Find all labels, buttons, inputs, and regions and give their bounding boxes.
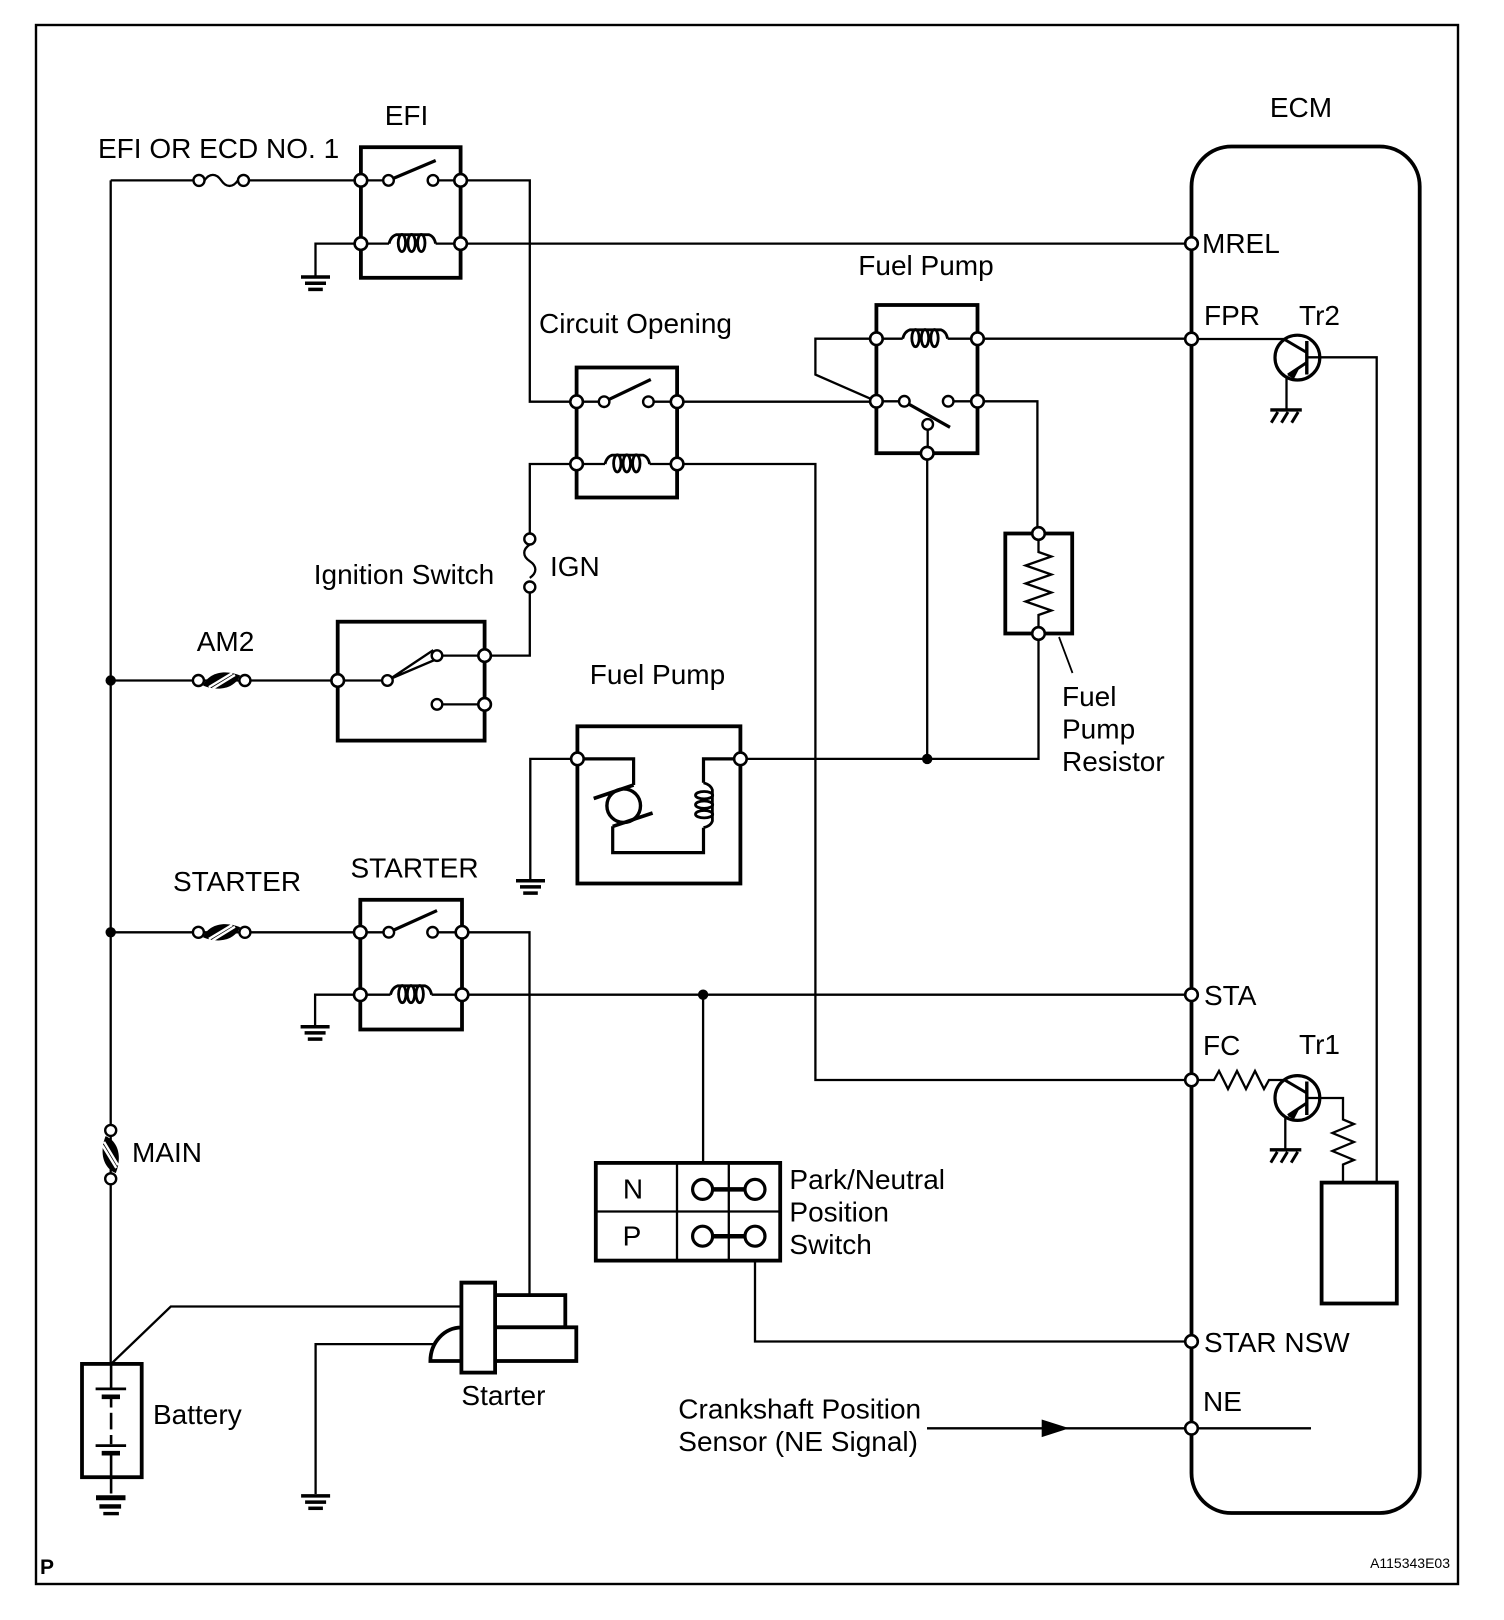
fuel pump motor brush bars — [594, 785, 634, 799]
svg-text:STAR NSW: STAR NSW — [1204, 1327, 1350, 1358]
wire: circuit opening coil right down to FC line and to ECM FC pin — [677, 464, 1191, 1080]
ignition switch IG2 contact + wire — [442, 654, 485, 656]
ignition switch arm (wedge) — [390, 651, 437, 679]
junction node at STARTER tap — [106, 927, 116, 937]
svg-text:Battery: Battery — [153, 1399, 242, 1430]
fusible link MAIN — [100, 1135, 121, 1175]
wire: starter motor to ground — [316, 1344, 434, 1494]
wire: Tr2 collector to load box — [1307, 357, 1377, 1182]
ground (fuel pump unit) — [516, 881, 545, 893]
svg-text:EFI OR ECD NO. 1: EFI OR ECD NO. 1 — [98, 133, 339, 164]
ground (EFI relay coil) — [301, 277, 330, 289]
relay STARTER coil — [391, 986, 432, 1003]
fuel pump resistor terminals — [1032, 527, 1045, 540]
transistor Tr2 — [1275, 335, 1320, 408]
relay Circuit Opening terminals — [570, 395, 583, 408]
fuel pump motor internal wiring — [577, 759, 633, 785]
chassis ground (Tr2 emitter) — [1270, 410, 1302, 423]
Fuel Pump unit box — [577, 726, 740, 883]
wire: STA junction down to park/neutral switch — [702, 995, 704, 1163]
relay EFI box — [361, 147, 461, 278]
wire: circuit opening switch to fuel pump relay switch — [677, 401, 876, 403]
fuel pump motor armature circle — [607, 789, 641, 823]
battery internal plates — [96, 1364, 127, 1494]
wire: circuit opening relay coil left to IGN fuse — [530, 464, 577, 539]
wire: EFI relay coil to ground — [316, 244, 361, 276]
switch Park/Neutral Position box — [596, 1163, 780, 1261]
svg-text:Position: Position — [789, 1197, 889, 1228]
wire: MREL line from EFI relay coil to ECM — [461, 242, 1192, 244]
park/neutral inner dividers — [596, 1163, 780, 1261]
svg-text:ECM: ECM — [1270, 92, 1332, 123]
svg-text:Crankshaft Position: Crankshaft Position — [678, 1394, 921, 1425]
ECM pin STAR NSW — [1185, 1335, 1198, 1348]
svg-text:Switch: Switch — [789, 1229, 871, 1260]
svg-text:FPR: FPR — [1204, 300, 1260, 331]
relay Fuel Pump coil — [903, 330, 948, 347]
svg-text:Tr2: Tr2 — [1299, 300, 1340, 331]
relay STARTER box — [360, 900, 462, 1030]
fuse IGN — [524, 545, 535, 578]
wire: STARTER fuse row from bus to starter relay — [111, 931, 361, 933]
ECM pin FC — [1185, 1074, 1198, 1087]
relay Fuel Pump switch arm — [908, 403, 951, 427]
fusible link AM2 — [202, 670, 242, 691]
svg-text:IGN: IGN — [550, 551, 600, 582]
svg-text:N: N — [623, 1174, 643, 1205]
Starter pinion arc — [430, 1328, 461, 1362]
svg-text:Fuel Pump: Fuel Pump — [590, 659, 725, 690]
svg-text:Ignition Switch: Ignition Switch — [314, 559, 495, 590]
svg-text:AM2: AM2 — [197, 626, 255, 657]
wire: park/neutral switch to ECM STAR NSW pin — [755, 1261, 1192, 1342]
ECM pin NE — [1185, 1422, 1198, 1435]
wire: starter relay switch down to starter motor — [462, 932, 530, 1295]
relay EFI switch arm — [393, 161, 436, 179]
wire: starter relay coil to ground — [315, 995, 360, 1025]
resistor on Tr1 collector (vertical zigzag) — [1307, 1098, 1354, 1183]
ignition switch AM2 contact — [382, 675, 393, 686]
relay Circuit Opening coil — [605, 455, 650, 472]
transistor Tr1 — [1275, 1076, 1320, 1149]
wire: battery positive bus (left vertical) — [110, 180, 112, 1364]
svg-text:MREL: MREL — [1202, 228, 1280, 259]
fuel pump unit coil — [696, 783, 713, 828]
wire: IGN fuse to ignition switch — [485, 587, 530, 656]
relay Fuel Pump moving contact stem — [927, 430, 929, 454]
relay STARTER terminals — [354, 926, 367, 939]
relay Circuit Opening switch contacts — [599, 396, 610, 407]
wire: STA line from starter relay coil to ECM — [462, 994, 1192, 996]
svg-text:Pump: Pump — [1062, 714, 1135, 745]
switch Ignition Switch box — [338, 622, 485, 741]
chassis ground (Tr1 emitter) — [1270, 1150, 1302, 1163]
fuel pump resistor zigzag — [1026, 540, 1052, 627]
svg-text:P: P — [40, 1556, 54, 1579]
park/neutral P contact pair — [713, 1234, 745, 1239]
relay EFI coil — [389, 234, 436, 251]
relay Circuit Opening box — [577, 368, 678, 498]
wire: EFI fuse to EFI relay — [249, 179, 361, 181]
relay STARTER switch contacts — [384, 927, 395, 938]
svg-text:Tr1: Tr1 — [1299, 1029, 1340, 1060]
wire: fuel pump relay switch to resistor top — [978, 401, 1038, 533]
relay STARTER switch arm — [393, 911, 437, 931]
svg-text:Starter: Starter — [461, 1380, 545, 1411]
ignition switch ST contact + wire — [442, 703, 485, 705]
junction node pump line / relay common — [922, 754, 932, 764]
svg-text:Fuel Pump: Fuel Pump — [858, 250, 993, 281]
fuse EFI OR ECD NO. 1 — [205, 175, 238, 186]
relay inner row stubs — [338, 180, 978, 994]
svg-text:Sensor (NE Signal): Sensor (NE Signal) — [678, 1426, 918, 1457]
relay Fuel Pump terminals — [870, 332, 883, 345]
relay EFI switch contacts — [383, 175, 394, 186]
wire: EFI relay switch out, down to circuit opening relay — [461, 180, 577, 401]
svg-text:P: P — [623, 1221, 642, 1252]
leader line to resistor label — [1059, 637, 1073, 673]
svg-text:EFI: EFI — [385, 100, 429, 131]
svg-text:NE: NE — [1203, 1386, 1242, 1417]
junction node STA / park-neutral — [698, 990, 708, 1000]
relay Circuit Opening switch arm — [608, 380, 651, 400]
svg-text:Park/Neutral: Park/Neutral — [789, 1164, 945, 1195]
Starter motor body — [461, 1283, 495, 1373]
wire: fuel pump relay common down to pump line — [926, 453, 928, 759]
ECM pin STA — [1185, 988, 1198, 1001]
junction node at AM2 tap — [106, 675, 116, 685]
wire: battery to starter motor — [111, 1307, 461, 1364]
svg-text:Resistor: Resistor — [1062, 746, 1165, 777]
fusible link STARTER — [202, 922, 242, 943]
fuel pump unit terminals — [571, 753, 584, 766]
svg-text:STARTER: STARTER — [350, 853, 478, 884]
svg-text:STA: STA — [1204, 980, 1257, 1011]
wire: crankshaft sensor NE signal line — [927, 1427, 1311, 1429]
relay Fuel Pump switch contacts — [899, 396, 910, 407]
resistor FC (horizontal zigzag) — [1192, 1071, 1285, 1089]
arrowhead on NE signal — [1042, 1420, 1070, 1438]
wire: FPR line from fuel pump relay coil to ECM and Tr2 base — [978, 338, 1286, 341]
relay EFI terminals — [355, 174, 368, 187]
wire: fuel pump relay feed L-drop to switch terminal — [815, 339, 876, 402]
wire: fuel pump unit to ground — [530, 759, 577, 879]
ground (starter motor) — [301, 1496, 330, 1508]
svg-text:A115343E03: A115343E03 — [1370, 1555, 1450, 1571]
svg-text:Fuel: Fuel — [1062, 681, 1116, 712]
wire: top feed to EFI fuse — [111, 179, 194, 181]
svg-text:Circuit Opening: Circuit Opening — [539, 308, 732, 339]
park/neutral N contact pair — [713, 1187, 745, 1192]
svg-text:FC: FC — [1203, 1030, 1240, 1061]
ECM pin FPR — [1185, 333, 1198, 346]
resistor Fuel Pump Resistor box — [1005, 534, 1072, 634]
svg-text:MAIN: MAIN — [132, 1137, 202, 1168]
wire: AM2 row from bus to ignition switch — [111, 679, 338, 681]
ground (starter relay coil) — [301, 1027, 330, 1039]
ignition switch terminals — [331, 674, 344, 687]
ground (battery) — [96, 1498, 126, 1514]
load box under transistors — [1322, 1183, 1397, 1304]
wire: resistor bottom to fuel pump unit — [740, 634, 1038, 759]
ECM box — [1192, 147, 1420, 1514]
svg-text:STARTER: STARTER — [173, 866, 301, 897]
ECM pin MREL — [1185, 237, 1198, 250]
relay Fuel Pump box — [876, 305, 977, 453]
Battery box — [82, 1364, 142, 1477]
